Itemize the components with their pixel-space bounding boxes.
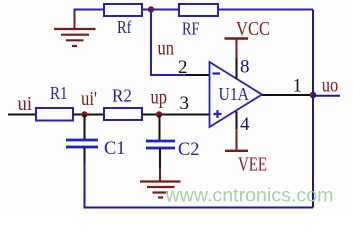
net label un — [158, 38, 175, 60]
pin 4 — [237, 112, 251, 136]
node un junction — [148, 6, 154, 12]
wire — [313, 95, 340, 97]
svg-text:www.cntronics.com: www.cntronics.com — [164, 185, 333, 207]
node uo junction — [310, 92, 317, 99]
wire — [218, 9, 313, 11]
svg-text:2: 2 — [178, 57, 188, 78]
net label uo — [322, 75, 339, 97]
net label up — [151, 87, 168, 109]
svg-text:8: 8 — [240, 57, 250, 78]
wire — [74, 9, 105, 11]
op-amp U1A — [210, 62, 263, 127]
wire — [262, 94, 313, 96]
svg-text:VCC: VCC — [236, 18, 270, 40]
wire — [142, 114, 209, 116]
svg-text:C1: C1 — [104, 138, 126, 159]
svg-text:ui': ui' — [81, 88, 97, 110]
svg-text:VEE: VEE — [238, 154, 267, 176]
svg-text:un: un — [158, 38, 175, 60]
ground — [54, 10, 96, 47]
capacitor C1 — [66, 138, 126, 159]
svg-text:4: 4 — [240, 114, 250, 135]
power VEE — [225, 129, 267, 176]
resistor RF — [179, 4, 218, 39]
svg-text:R1: R1 — [50, 83, 68, 103]
net label ui' — [81, 88, 97, 110]
svg-text:RF: RF — [182, 19, 200, 39]
node up — [156, 111, 162, 117]
pin 3 — [180, 93, 190, 114]
wire — [159, 148, 161, 168]
wire — [84, 115, 86, 140]
svg-text:ui: ui — [18, 93, 33, 115]
pin 2 — [178, 57, 188, 78]
wire — [159, 115, 161, 141]
wire — [159, 168, 161, 181]
power VCC — [225, 18, 271, 58]
svg-text:up: up — [151, 87, 168, 109]
svg-text:R2: R2 — [112, 86, 132, 106]
wire — [312, 10, 314, 208]
svg-text:3: 3 — [180, 93, 190, 114]
node ui' — [81, 111, 87, 117]
resistor R2 — [104, 86, 142, 121]
wire — [73, 114, 104, 116]
resistor Rf — [104, 4, 142, 37]
svg-text:C2: C2 — [178, 139, 200, 160]
watermark — [164, 185, 333, 207]
wire — [8, 114, 36, 116]
svg-text:uo: uo — [322, 75, 339, 97]
wire — [151, 10, 187, 76]
wire — [85, 148, 314, 208]
pin 1 — [293, 76, 303, 97]
capacitor C2 — [146, 139, 200, 160]
svg-text:U1A: U1A — [219, 84, 250, 104]
resistor R1 — [36, 83, 73, 121]
wire — [142, 9, 179, 11]
svg-text:1: 1 — [293, 76, 303, 97]
net label ui — [18, 93, 33, 115]
svg-text:Rf: Rf — [117, 17, 132, 37]
wire — [186, 74, 209, 76]
ground — [140, 182, 181, 198]
pin 8 — [237, 57, 250, 80]
